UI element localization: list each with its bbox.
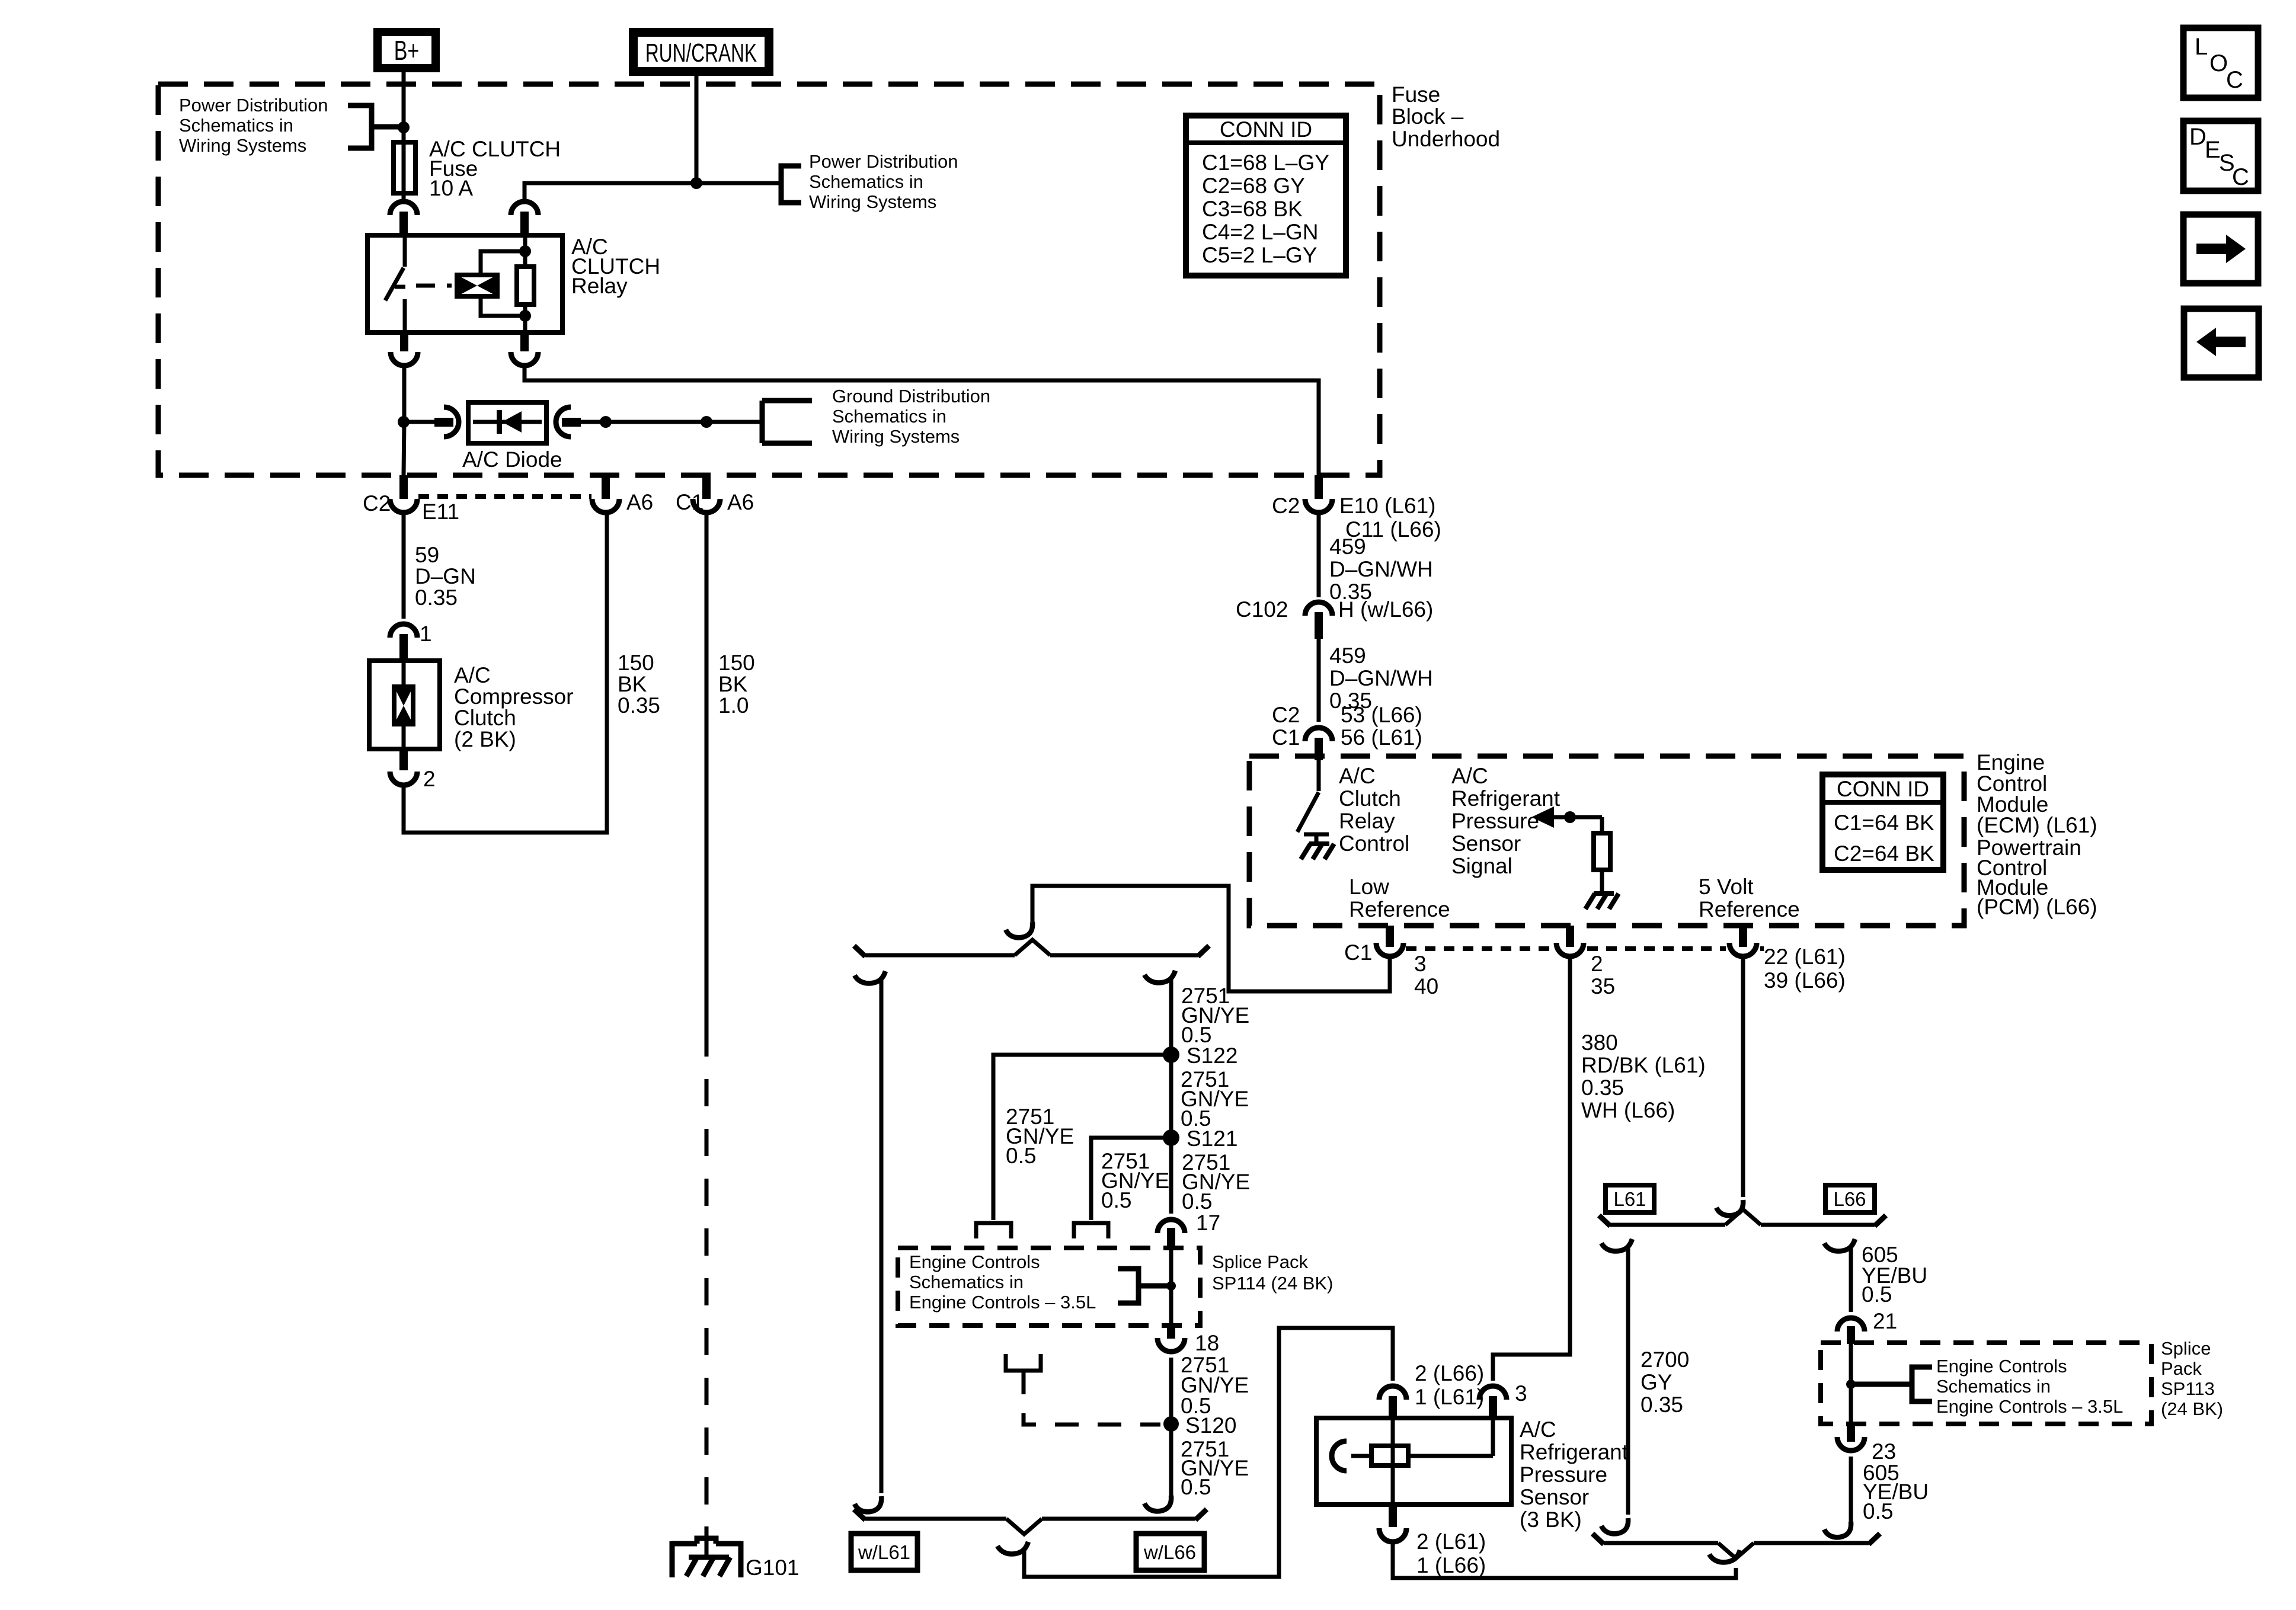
connector pin 21	[1837, 1318, 1865, 1344]
label Engine Controls Schematics SP114	[909, 1251, 1096, 1313]
label A/C CLUTCH Fuse 10 A	[429, 137, 561, 200]
wire 59 D-GN down	[402, 512, 406, 619]
svg-text:1 (L66): 1 (L66)	[1416, 1553, 1486, 1577]
svg-text:C2: C2	[1272, 494, 1300, 518]
node SP113 splice	[1846, 1379, 1856, 1389]
svg-text:SP113: SP113	[2161, 1378, 2215, 1399]
diode A/C box	[468, 402, 546, 443]
node ground branch 2	[701, 416, 712, 428]
node S122	[1163, 1046, 1179, 1063]
wire RUN/CRANK down	[695, 76, 699, 183]
hook L66 drop	[1824, 1239, 1855, 1251]
label Power Distribution Schematics in Wiring Systems 2	[809, 151, 958, 212]
svg-text:L: L	[2195, 34, 2208, 60]
power feed B+	[373, 28, 440, 72]
node S120	[1163, 1416, 1179, 1432]
svg-text:2: 2	[423, 767, 436, 791]
connector relay output right	[511, 332, 538, 366]
hook branch left drop	[855, 971, 885, 983]
label 2700 GY 0.35	[1641, 1347, 1689, 1417]
relay switch	[385, 235, 405, 332]
svg-text:A/C: A/C	[1520, 1417, 1556, 1442]
svg-text:C2: C2	[1272, 703, 1300, 727]
svg-text:E10 (L61): E10 (L61)	[1339, 494, 1436, 518]
svg-text:Reference: Reference	[1349, 897, 1450, 921]
label 605 YE/BU 0.5 upper	[1862, 1243, 1927, 1307]
wire B+ down to relay	[402, 72, 406, 202]
svg-text:A/C Diode: A/C Diode	[462, 447, 562, 472]
svg-text:Pressure: Pressure	[1520, 1462, 1607, 1487]
chevron down merge	[1006, 1519, 1042, 1534]
label Ground Distribution Schematics in Wiring Systems	[832, 386, 990, 447]
connector relay pin right (coil side)	[511, 201, 538, 235]
label Engine Control Module ECM PCM	[1977, 750, 2097, 919]
node signal junction	[1564, 811, 1576, 823]
wire below pin 18	[1169, 1358, 1173, 1496]
svg-text:Relay: Relay	[1339, 809, 1395, 833]
clutch coil wiring	[402, 661, 406, 749]
connector sensor pin 3	[1479, 1386, 1507, 1419]
bus 5V split	[1610, 1223, 1875, 1227]
label C2 C1	[1272, 703, 1300, 750]
svg-text:Fuse: Fuse	[1392, 82, 1440, 107]
bracket SP114	[1118, 1269, 1167, 1303]
svg-text:1: 1	[420, 622, 432, 646]
label A/C Clutch Relay Control	[1339, 764, 1409, 856]
label A/C Refrigerant Pressure Sensor 3BK	[1520, 1417, 1629, 1532]
svg-text:L66: L66	[1833, 1188, 1866, 1210]
svg-text:0.5: 0.5	[1181, 1475, 1211, 1499]
svg-text:40: 40	[1414, 974, 1438, 998]
connector C2 pin E11	[390, 475, 417, 513]
relay A/C CLUTCH box	[367, 235, 562, 332]
node SP114 splice	[1166, 1281, 1176, 1291]
svg-text:w/L61: w/L61	[858, 1541, 910, 1563]
signal arrow	[1531, 806, 1602, 828]
svg-text:0.5: 0.5	[1863, 1499, 1893, 1523]
wire 605 YE/BU upper	[1849, 1246, 1853, 1312]
connector line C2 dotted	[418, 494, 591, 499]
connector C2/C1 into ECM	[1305, 728, 1332, 760]
ECM dashed box	[1249, 756, 1964, 926]
svg-text:BK: BK	[618, 672, 647, 696]
svg-text:Schematics in: Schematics in	[909, 1272, 1024, 1292]
connector A6 pin (clutch feed)	[592, 475, 619, 513]
conn id table fuse block	[1186, 116, 1346, 276]
hook branch right drop	[1144, 971, 1175, 982]
svg-text:GY: GY	[1641, 1370, 1672, 1394]
hook 2700 GY end	[1601, 1518, 1628, 1534]
icon DESC	[2183, 121, 2258, 191]
tick right bus4	[1869, 1534, 1880, 1544]
svg-text:0.35: 0.35	[618, 693, 660, 718]
svg-text:C2=64 BK: C2=64 BK	[1834, 841, 1934, 866]
label 2 L61 1 L66	[1416, 1529, 1486, 1577]
svg-text:Clutch: Clutch	[454, 706, 516, 730]
label 53 56	[1341, 703, 1422, 750]
svg-text:A6: A6	[626, 490, 653, 514]
splice pack SP114 dashed box	[898, 1248, 1200, 1326]
svg-text:10 A: 10 A	[429, 176, 473, 200]
tick left bus2	[854, 1509, 865, 1520]
tick right bus2	[1195, 1509, 1207, 1520]
svg-text:Engine Controls: Engine Controls	[909, 1251, 1040, 1272]
hook below merge chevron	[997, 1542, 1028, 1554]
label Fuse Block - Underhood	[1392, 82, 1500, 151]
svg-text:C4=2 L–GN: C4=2 L–GN	[1202, 220, 1318, 244]
wire through SP113	[1849, 1344, 1853, 1423]
wire G101 stub	[705, 1526, 709, 1557]
label 2 L66 1 L61	[1415, 1361, 1484, 1409]
svg-text:0.5: 0.5	[1862, 1282, 1892, 1307]
wire 22/39 down to split	[1741, 956, 1745, 1197]
svg-text:Wiring Systems: Wiring Systems	[832, 426, 960, 447]
svg-text:18: 18	[1195, 1331, 1219, 1355]
connector clutch pin 2	[390, 749, 417, 785]
svg-text:C2=68 GY: C2=68 GY	[1202, 174, 1305, 198]
svg-text:S122: S122	[1187, 1044, 1237, 1068]
svg-text:Pack: Pack	[2161, 1358, 2202, 1379]
connector C2 pin E10	[1305, 475, 1332, 513]
tick right bus3	[1875, 1215, 1886, 1226]
svg-text:0.5: 0.5	[1101, 1188, 1131, 1212]
svg-text:Pressure: Pressure	[1451, 809, 1539, 833]
svg-text:Power Distribution: Power Distribution	[809, 151, 958, 172]
splice pack SP113 dashed box	[1821, 1343, 2151, 1424]
svg-text:Signal: Signal	[1451, 854, 1512, 878]
label A/C Refrigerant Pressure Sensor Signal	[1451, 764, 1560, 878]
label A/C Compressor Clutch (2 BK)	[454, 663, 574, 751]
label 2751 GN/YE 0.5 S121 branch	[1101, 1149, 1169, 1212]
svg-text:Underhood: Underhood	[1392, 127, 1500, 151]
svg-text:Engine Controls – 3.5L: Engine Controls – 3.5L	[909, 1292, 1096, 1313]
svg-text:0.5: 0.5	[1182, 1189, 1212, 1214]
wire 150 BK 1.0 solid	[705, 512, 709, 1029]
connector clutch pin 1	[390, 624, 417, 661]
svg-text:3: 3	[1414, 952, 1427, 976]
svg-text:L61: L61	[1613, 1188, 1646, 1210]
label 605 YE/BU 0.5 lower	[1863, 1461, 1929, 1523]
svg-text:Power Distribution: Power Distribution	[179, 95, 328, 116]
icon arrow right	[2183, 215, 2258, 283]
hook branch left bottom	[855, 1496, 881, 1512]
wire clutch return loop	[404, 512, 607, 833]
relay linkage dashed	[416, 284, 452, 288]
label 150 BK 1.0	[718, 651, 755, 718]
label Engine Controls Schematics SP113	[1936, 1356, 2123, 1417]
svg-text:150: 150	[718, 651, 755, 675]
svg-text:(2 BK): (2 BK)	[454, 727, 516, 751]
harness box w/L61	[851, 1534, 917, 1570]
svg-text:53 (L66): 53 (L66)	[1341, 703, 1422, 727]
svg-text:A/C: A/C	[1451, 764, 1488, 788]
svg-text:150: 150	[618, 651, 654, 675]
svg-text:459: 459	[1329, 644, 1366, 668]
svg-text:56 (L61): 56 (L61)	[1341, 725, 1422, 750]
node B+ tap	[398, 121, 410, 133]
svg-text:Refrigerant: Refrigerant	[1520, 1440, 1629, 1464]
bus low reference merge	[865, 1517, 1195, 1521]
svg-text:CONN ID: CONN ID	[1220, 117, 1312, 142]
ECM switch contact and ground	[1301, 834, 1334, 859]
svg-text:C: C	[2226, 67, 2243, 93]
svg-text:Schematics in: Schematics in	[809, 171, 923, 192]
svg-text:D–GN: D–GN	[415, 564, 476, 588]
svg-text:Compressor: Compressor	[454, 684, 574, 709]
clutch solenoid	[394, 687, 413, 724]
svg-text:C2: C2	[363, 491, 391, 516]
node coil top	[519, 245, 531, 257]
label A/C CLUTCH Relay	[571, 235, 660, 298]
chevron down 5V merge	[1718, 1543, 1754, 1558]
hook branch right bottom	[1144, 1496, 1171, 1511]
pullup wiring	[1600, 817, 1604, 894]
label 3 40	[1414, 952, 1438, 998]
svg-text:D–GN/WH: D–GN/WH	[1329, 666, 1433, 690]
bracket to Ground Distribution reference	[762, 401, 812, 443]
connector pin 2/35	[1556, 926, 1584, 956]
svg-text:Relay: Relay	[571, 274, 628, 298]
svg-text:3: 3	[1515, 1381, 1527, 1406]
wire S122 branch to engine controls	[976, 1055, 1171, 1238]
diode blade left	[434, 418, 453, 427]
wire S121 branch to engine controls	[1074, 1138, 1171, 1238]
wire diode to ground reference	[581, 420, 762, 424]
svg-text:O: O	[2209, 50, 2228, 76]
wire 605 YE/BU lower	[1849, 1457, 1853, 1523]
harness box w/L66	[1136, 1534, 1204, 1570]
node S121	[1163, 1129, 1179, 1146]
svg-text:C3=68 BK: C3=68 BK	[1202, 197, 1303, 221]
relay coil wiring	[481, 235, 525, 332]
label 2751 GN/YE 0.5 above S120	[1181, 1353, 1249, 1418]
svg-text:Wiring Systems: Wiring Systems	[179, 135, 306, 156]
svg-text:A/C: A/C	[1339, 764, 1376, 788]
svg-text:Control: Control	[1339, 831, 1409, 856]
svg-text:Wiring Systems: Wiring Systems	[809, 191, 936, 212]
svg-text:CONN ID: CONN ID	[1837, 777, 1929, 801]
svg-text:Block –: Block –	[1392, 104, 1464, 129]
svg-text:Sensor: Sensor	[1451, 831, 1521, 856]
svg-text:Engine Controls – 3.5L: Engine Controls – 3.5L	[1936, 1396, 2123, 1417]
svg-text:RD/BK (L61): RD/BK (L61)	[1581, 1053, 1706, 1077]
svg-text:Splice: Splice	[2161, 1338, 2211, 1359]
ground G101 symbol	[672, 1538, 741, 1577]
svg-text:C1: C1	[1344, 940, 1372, 965]
svg-text:C5=2 L–GY: C5=2 L–GY	[1202, 243, 1317, 267]
icon arrow left	[2184, 309, 2259, 377]
bracket SP113	[1855, 1367, 1932, 1401]
svg-text:D: D	[2189, 124, 2207, 150]
diode cup right	[556, 407, 571, 437]
svg-text:H (w/L66): H (w/L66)	[1338, 597, 1433, 622]
svg-text:E11: E11	[422, 500, 459, 524]
svg-text:E: E	[2205, 137, 2221, 163]
svg-text:0.35: 0.35	[1581, 1076, 1624, 1100]
svg-text:BK: BK	[718, 672, 748, 696]
wire RUN/CRANK feed to relay coil	[525, 183, 781, 202]
svg-text:S120: S120	[1185, 1413, 1236, 1438]
resistor relay	[517, 267, 534, 305]
svg-text:2 (L61): 2 (L61)	[1416, 1529, 1486, 1554]
label 2751 GN/YE 0.5 below S120	[1181, 1437, 1249, 1499]
svg-text:5 Volt: 5 Volt	[1699, 875, 1754, 899]
svg-text:0.5: 0.5	[1006, 1144, 1036, 1168]
svg-text:380: 380	[1581, 1030, 1618, 1055]
wire sensor 5V return	[1393, 1541, 1736, 1578]
label 59 D-GN 0.35	[415, 543, 476, 610]
label Splice Pack SP114 24BK	[1212, 1251, 1333, 1294]
svg-text:Reference: Reference	[1699, 897, 1800, 921]
svg-text:G101: G101	[746, 1555, 800, 1580]
label Splice Pack SP113 24BK	[2161, 1338, 2223, 1419]
power feed RUN/CRANK	[629, 28, 773, 76]
wire branch left vertical	[880, 978, 884, 1493]
svg-text:B+: B+	[394, 35, 420, 66]
wire low reference from C1	[1032, 886, 1390, 991]
connector pin 23	[1837, 1423, 1865, 1451]
label 2751 GN/YE 0.5 below S121	[1182, 1150, 1250, 1214]
svg-text:1.0: 1.0	[718, 693, 749, 718]
wire relay switch output down	[404, 365, 404, 475]
chevron up 5V split	[1725, 1209, 1761, 1225]
connector line C1 dotted ECM	[1406, 946, 1764, 951]
wire relay coil output to E10	[525, 365, 1319, 475]
svg-text:SP114 (24 BK): SP114 (24 BK)	[1212, 1273, 1333, 1294]
connector pin 22/39	[1729, 926, 1757, 956]
label 5 Volt Reference	[1699, 875, 1800, 921]
svg-text:C1=68 L–GY: C1=68 L–GY	[1202, 151, 1329, 175]
bracket to Power Distribution reference 2	[781, 166, 801, 203]
bus 5V merge	[1604, 1541, 1869, 1545]
wire 459 lower	[1317, 639, 1321, 722]
resistor pullup	[1594, 833, 1610, 870]
node RUN/CRANK tap	[690, 177, 702, 189]
wire dashed to S120	[1024, 1371, 1160, 1425]
node coil bottom	[519, 310, 531, 322]
svg-text:S121: S121	[1187, 1126, 1237, 1151]
svg-text:(ECM) (L61): (ECM) (L61)	[1977, 813, 2097, 837]
connector C102	[1305, 602, 1332, 639]
harness box L66	[1825, 1185, 1875, 1212]
diode cup left	[444, 407, 459, 437]
label 459 D-GN/WH 0.35 upper	[1329, 534, 1433, 604]
connector sensor bottom pin	[1379, 1505, 1406, 1542]
svg-text:0.35: 0.35	[1641, 1393, 1683, 1417]
svg-text:1 (L61): 1 (L61)	[1415, 1385, 1484, 1409]
icon LOC	[2183, 28, 2258, 98]
tick right bus1	[1198, 946, 1209, 956]
svg-text:(PCM) (L66): (PCM) (L66)	[1977, 895, 2097, 919]
svg-text:39 (L66): 39 (L66)	[1764, 968, 1846, 993]
bracket to Power Distribution reference	[348, 105, 404, 148]
sensor internals	[1332, 1418, 1493, 1505]
pressure sensor box	[1316, 1418, 1511, 1505]
svg-text:D–GN/WH: D–GN/WH	[1329, 557, 1433, 581]
tick left bus1	[854, 946, 865, 956]
label 150 BK 0.35	[618, 651, 660, 718]
svg-text:22 (L61): 22 (L61)	[1764, 945, 1846, 969]
label 2751 GN/YE 0.5 left branch	[1006, 1105, 1074, 1168]
svg-text:Schematics in: Schematics in	[179, 115, 293, 136]
svg-text:WH (L66): WH (L66)	[1581, 1098, 1675, 1122]
diode blade right	[562, 418, 581, 427]
svg-text:2 (L66): 2 (L66)	[1415, 1361, 1484, 1385]
fork below SP114	[1006, 1354, 1041, 1371]
svg-text:2: 2	[1591, 952, 1603, 976]
hook L61 drop	[1601, 1239, 1632, 1251]
wire branch right vertical upper	[1169, 978, 1173, 1214]
connector relay output left	[391, 332, 418, 366]
connector pin 18	[1157, 1326, 1185, 1352]
svg-text:Sensor: Sensor	[1520, 1485, 1589, 1509]
svg-text:RUN/CRANK: RUN/CRANK	[645, 39, 757, 68]
svg-text:C: C	[2232, 164, 2249, 190]
label Power Distribution Schematics in Wiring Systems	[179, 95, 328, 156]
label 459 D-GN/WH 0.35 lower	[1329, 644, 1433, 713]
ECM switch A/C clutch relay control	[1297, 760, 1319, 832]
hook low reference branch end	[1006, 922, 1032, 937]
node diode junction left	[398, 416, 410, 428]
label 2751 GN/YE 0.5 between S122 S121	[1181, 1067, 1249, 1131]
fuse A/C CLUTCH 10A	[394, 142, 415, 193]
harness box L61	[1606, 1185, 1654, 1212]
connector A6 pin (G101 feed)	[693, 475, 720, 513]
svg-text:Splice Pack: Splice Pack	[1212, 1251, 1308, 1272]
svg-text:Schematics in: Schematics in	[1936, 1376, 2051, 1397]
svg-text:Ground Distribution: Ground Distribution	[832, 386, 990, 406]
label 380 RD/BK 0.35 WH	[1581, 1030, 1706, 1122]
label 22 39	[1764, 945, 1846, 993]
connector relay pin left (fuse side)	[390, 201, 417, 235]
tick left bus3	[1599, 1215, 1610, 1226]
svg-text:59: 59	[415, 543, 439, 567]
label 2 35	[1591, 952, 1615, 998]
diode element	[473, 410, 542, 434]
svg-text:Engine Controls: Engine Controls	[1936, 1356, 2067, 1377]
svg-text:2700: 2700	[1641, 1347, 1689, 1372]
chevron up split	[1015, 940, 1050, 955]
svg-text:0.35: 0.35	[415, 585, 458, 610]
svg-text:35: 35	[1591, 974, 1615, 998]
svg-text:(3 BK): (3 BK)	[1520, 1507, 1582, 1532]
connector sensor pin 2(L66)/1(L61)	[1379, 1386, 1406, 1419]
wire to diode	[408, 420, 434, 424]
svg-text:C102: C102	[1236, 597, 1288, 622]
connector pin 17	[1157, 1219, 1185, 1248]
hook 5V split	[1716, 1200, 1743, 1215]
connector C1 pin 3/40	[1376, 926, 1403, 956]
svg-text:A/C: A/C	[454, 663, 491, 687]
conn id table ECM	[1822, 774, 1943, 870]
wire signal 380 down	[1493, 956, 1570, 1381]
wire merge to sensor low ref	[1024, 1328, 1393, 1577]
bus low reference split	[865, 953, 1198, 958]
svg-text:17: 17	[1196, 1211, 1220, 1235]
hook 605 end	[1824, 1522, 1851, 1537]
svg-text:C1: C1	[1272, 725, 1300, 750]
svg-text:C1=64 BK: C1=64 BK	[1834, 811, 1934, 835]
wire through SP114	[1169, 1249, 1173, 1326]
label Low Reference	[1349, 875, 1450, 921]
svg-text:Low: Low	[1349, 875, 1389, 899]
svg-text:A6: A6	[727, 490, 754, 514]
svg-text:459: 459	[1329, 534, 1366, 559]
node ground branch 1	[600, 416, 612, 428]
label 2751 GN/YE 0.5 above S122	[1181, 984, 1249, 1047]
svg-text:(24 BK): (24 BK)	[2161, 1398, 2223, 1419]
svg-text:23: 23	[1872, 1439, 1896, 1464]
